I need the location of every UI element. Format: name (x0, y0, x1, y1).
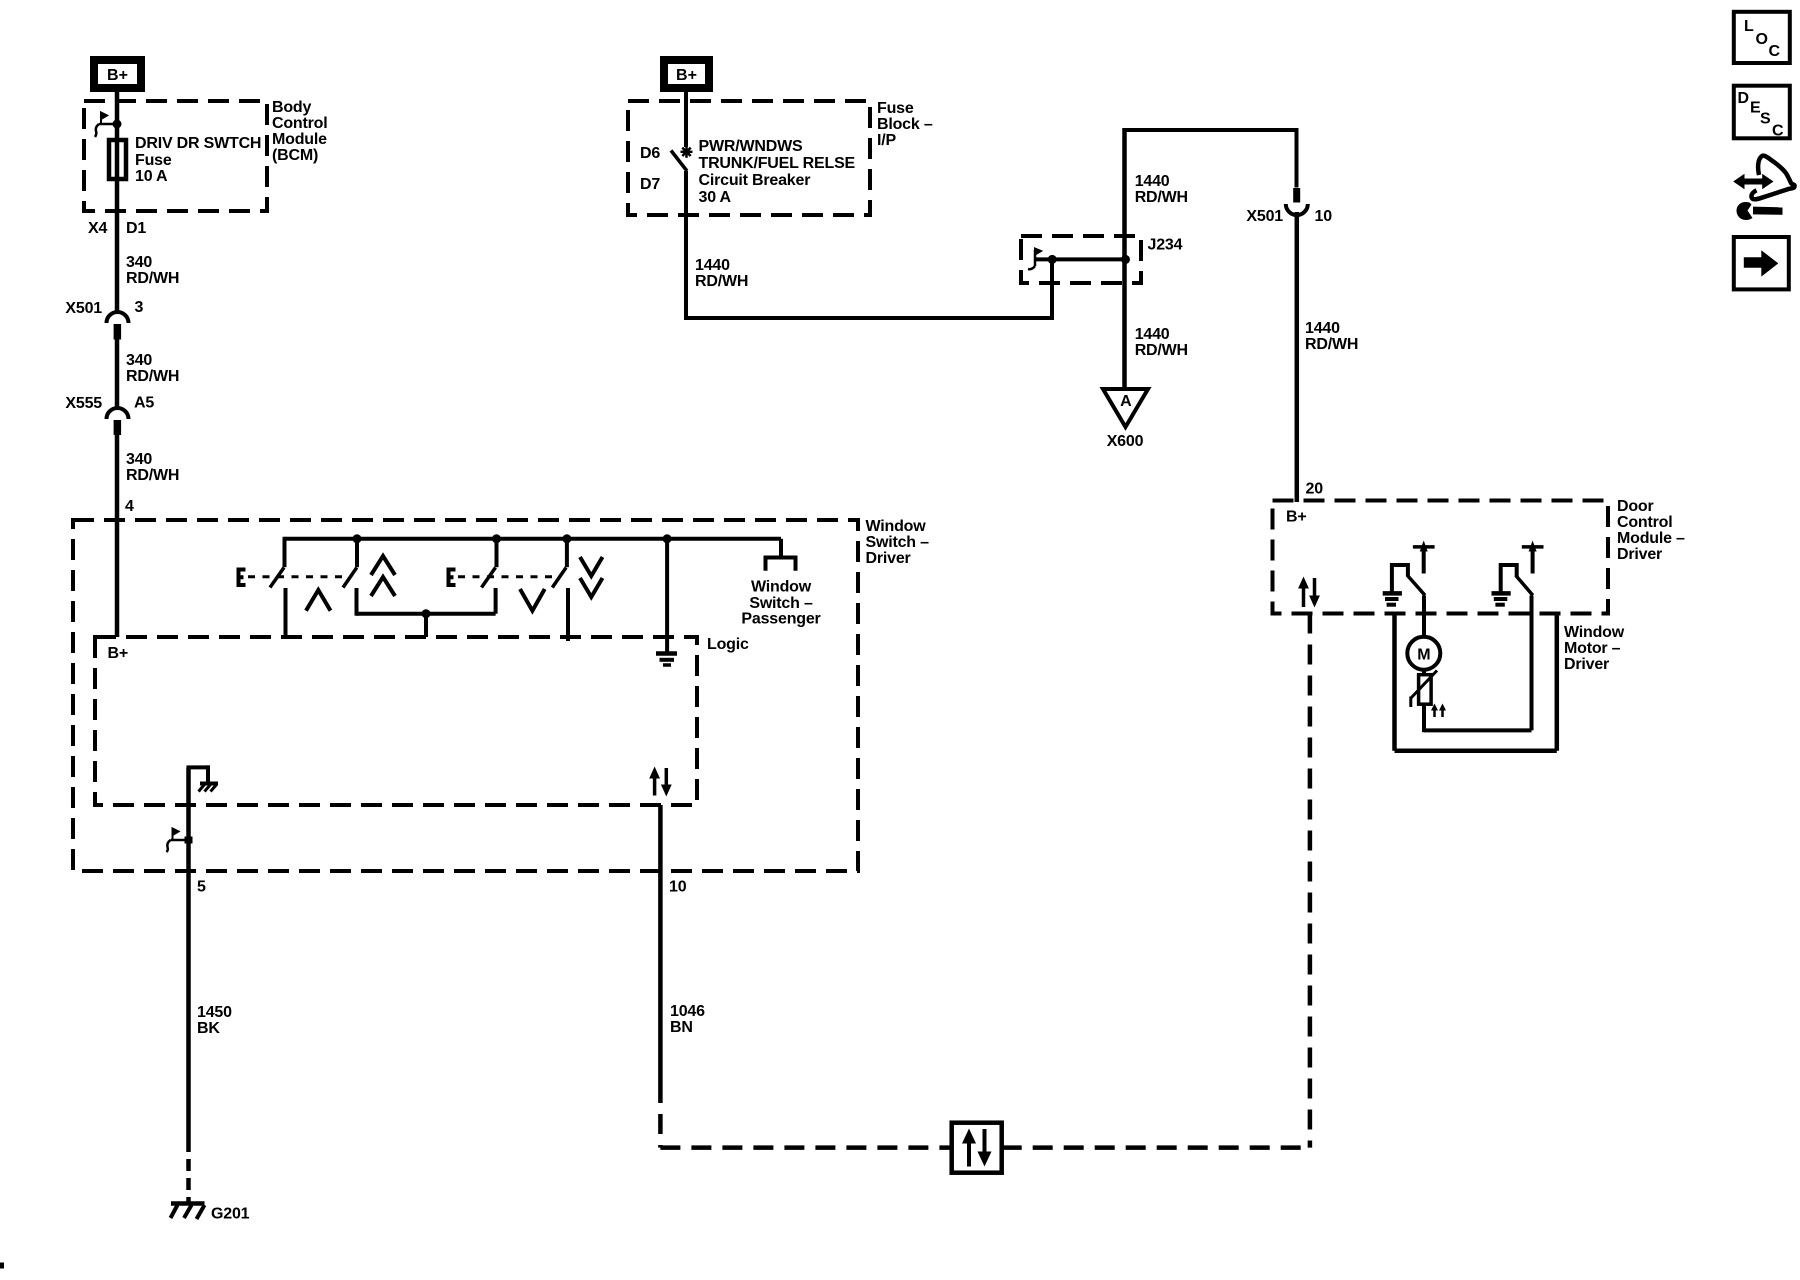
main feed vertical wire (1122, 128, 1127, 389)
single up arrow (driver down contact mark) (306, 590, 331, 611)
battery positive feed B+ box (fuse block) (664, 60, 709, 88)
svg-text:D1: D1 (126, 220, 146, 237)
dashed run to motor control box (660, 1145, 951, 1150)
wire label 340 RD/WH (3) (126, 451, 179, 484)
logic up/down arrows at pin 10 (649, 767, 672, 797)
svg-text:A5: A5 (134, 395, 154, 412)
svg-text:RD/WH: RD/WH (1305, 336, 1358, 353)
passenger window switch contact 1 (up) (482, 537, 497, 614)
svg-text:Window: Window (866, 518, 927, 535)
clip symbol on pin 5 wire (167, 829, 193, 853)
passenger window switch contact 2 (down) (552, 537, 568, 641)
Window Motor - Driver outer wires (1395, 612, 1557, 751)
svg-text:340: 340 (126, 451, 152, 468)
connector X501 pin 3 (65, 299, 143, 340)
svg-text:BK: BK (197, 1020, 220, 1037)
svg-text:S: S (1760, 111, 1771, 128)
scan mark bottom left (0, 1263, 4, 1269)
svg-text:X4: X4 (88, 220, 107, 237)
Fuse Block label (877, 100, 933, 149)
dashed lead to ground G201 (186, 1140, 191, 1203)
module relay switch 1 (1392, 565, 1425, 595)
svg-text:BN: BN (670, 1019, 693, 1036)
wire X501 to door control module (1295, 212, 1300, 502)
wire label 340 RD/WH (1) (126, 254, 179, 287)
circuit breaker PWR/WNDWS 30 A (671, 146, 693, 171)
wire X555 to window switch pin 4 (115, 435, 120, 637)
wiring diagram icon (arrow, harness, wrench) (1733, 156, 1794, 220)
wire switch 2 down (1530, 596, 1534, 731)
switch supply bus wire (285, 537, 782, 541)
wire label 1440 RD/WH (right) (1305, 320, 1358, 353)
battery positive feed B+ box (left) (94, 60, 141, 88)
svg-text:G201: G201 (211, 1206, 250, 1223)
wire label 1440 RD/WH (lower) (1135, 326, 1188, 359)
travel arrow switch 1 (1413, 541, 1435, 574)
Door Control Module - Driver dashed box (1273, 501, 1609, 614)
svg-text:20: 20 (1306, 481, 1324, 498)
ground symbol inside switch box (656, 539, 677, 665)
wire label 1450 BK (197, 1004, 232, 1037)
motor loop wire (1424, 728, 1532, 732)
svg-text:Passenger: Passenger (741, 611, 820, 628)
svg-text:RD/WH: RD/WH (126, 467, 179, 484)
svg-text:J234: J234 (1148, 237, 1183, 254)
svg-text:B+: B+ (107, 67, 128, 84)
BCM label (272, 99, 327, 164)
switch actuator E symbol 1 (239, 570, 343, 586)
Door Control Module label (1617, 498, 1685, 563)
svg-text:RD/WH: RD/WH (126, 368, 179, 385)
double down arrows (express down mark) (580, 557, 603, 597)
wire label 1440 RD/WH (breaker) (695, 257, 748, 290)
svg-text:X600: X600 (1107, 433, 1144, 450)
splice pack X600 triangle (1103, 389, 1148, 450)
wire X501 to X555 (115, 340, 120, 409)
splice J234 dashed box (1021, 236, 1141, 283)
svg-text:A: A (1120, 393, 1132, 410)
BCM internal clip symbol (95, 113, 122, 138)
svg-text:30 A: 30 A (699, 189, 732, 206)
svg-text:RD/WH: RD/WH (695, 273, 748, 290)
ground symbol switch 2 (1492, 593, 1511, 604)
svg-text:Window: Window (1564, 624, 1625, 641)
Fuse Block - I/P dashed box (628, 101, 870, 215)
svg-text:L: L (1744, 18, 1754, 35)
svg-text:C: C (1772, 123, 1784, 140)
svg-text:4: 4 (125, 498, 134, 515)
svg-text:Window: Window (751, 579, 812, 596)
svg-text:O: O (1756, 31, 1768, 48)
link wire between driver switch and logic (357, 609, 496, 637)
module up/down arrows (1298, 577, 1320, 608)
wire switch 1 to motor (1422, 596, 1426, 639)
wire fuse to BCM pin D1 (115, 179, 120, 313)
svg-text:1450: 1450 (197, 1004, 232, 1021)
svg-text:RD/WH: RD/WH (1135, 342, 1188, 359)
svg-text:1440: 1440 (1135, 173, 1170, 190)
svg-text:B+: B+ (108, 645, 129, 662)
svg-text:10: 10 (1315, 208, 1333, 225)
wire label 1440 RD/WH (upper) (1135, 173, 1188, 206)
svg-text:1440: 1440 (1305, 320, 1340, 337)
svg-text:Driver: Driver (1564, 656, 1609, 673)
svg-text:Block –: Block – (877, 116, 933, 133)
wire label 1046 BN (670, 1003, 705, 1036)
Window Switch - Driver label (866, 518, 930, 567)
Window Switch - Passenger label (741, 579, 820, 628)
svg-text:B+: B+ (676, 67, 697, 84)
wire B+ into fuse block (684, 88, 688, 147)
bus junction nodes (353, 534, 672, 543)
wire B+ down into BCM (115, 88, 120, 140)
svg-text:10 A: 10 A (135, 168, 168, 185)
fuse DRIV DR SWTCH 10 A (109, 140, 126, 179)
svg-text:340: 340 (126, 254, 152, 271)
connector X501 pin 10 (1246, 188, 1332, 225)
travel arrow switch 2 (1522, 541, 1544, 574)
thermal double up arrows (1431, 704, 1446, 718)
Window Switch - Driver dashed box (73, 520, 858, 871)
svg-text:D: D (1738, 90, 1750, 107)
svg-text:X501: X501 (65, 300, 102, 317)
Logic dashed box (95, 637, 697, 805)
logic output wire to pin 5 (186, 767, 191, 1140)
motor direction box on 1046 run (952, 1123, 1002, 1173)
svg-text:Driver: Driver (1617, 546, 1662, 563)
circuit breaker label (699, 138, 856, 206)
wire top feed down to X501 pin 10 (1295, 128, 1299, 188)
ground symbol switch 1 (1383, 593, 1402, 604)
Body Control Module (BCM) dashed box (84, 101, 267, 211)
window motor M (1407, 637, 1440, 670)
pin labels X4 D1 (88, 220, 146, 237)
motor thermal protector (1411, 670, 1438, 707)
logic output wire to pin 10 (658, 805, 663, 1083)
wire label 340 RD/WH (2) (126, 352, 179, 385)
svg-text:Body: Body (272, 99, 312, 116)
svg-text:Switch –: Switch – (866, 534, 930, 551)
wire thermal to loop (1422, 704, 1426, 732)
module relay switch 2 (1501, 565, 1533, 595)
forward arrow icon box (1734, 237, 1789, 289)
svg-text:5: 5 (197, 879, 206, 896)
wire breaker down (684, 171, 688, 320)
svg-text:Motor –: Motor – (1564, 640, 1621, 657)
svg-text:(BCM): (BCM) (272, 147, 318, 164)
svg-text:1440: 1440 (695, 257, 730, 274)
svg-text:Fuse: Fuse (877, 100, 914, 117)
LOC icon box (1734, 12, 1790, 63)
svg-text:340: 340 (126, 352, 152, 369)
fuse value label (135, 135, 261, 185)
top feed horizontal wire (1125, 128, 1297, 132)
svg-text:M: M (1417, 647, 1430, 664)
svg-text:Driver: Driver (866, 550, 911, 567)
svg-text:Switch –: Switch – (749, 595, 813, 612)
ground G201 (171, 1204, 250, 1223)
internal chassis ground of logic (187, 765, 219, 791)
svg-text:Control: Control (1617, 514, 1672, 531)
single down arrow (passenger up contact mark) (520, 589, 545, 611)
svg-text:1046: 1046 (670, 1003, 705, 1020)
switch actuator E symbol 2 (449, 570, 559, 586)
svg-text:C: C (1769, 43, 1781, 60)
svg-text:PWR/WNDWS: PWR/WNDWS (699, 138, 803, 155)
svg-text:10: 10 (669, 879, 687, 896)
svg-text:Circuit Breaker: Circuit Breaker (699, 172, 811, 189)
svg-text:X501: X501 (1246, 208, 1283, 225)
svg-text:X555: X555 (65, 395, 102, 412)
window switch passenger connector stub (766, 539, 796, 571)
driver window switch contact 2 (up) (343, 537, 357, 616)
driver window switch contact 1 (down) (270, 537, 286, 637)
clip symbol in J234 (1028, 249, 1041, 270)
svg-text:I/P: I/P (877, 132, 896, 149)
svg-text:Module –: Module – (1617, 530, 1685, 547)
svg-text:RD/WH: RD/WH (1135, 189, 1188, 206)
connector X555 pin A5 (65, 395, 154, 436)
double up arrows (express up mark) (371, 556, 395, 596)
svg-text:Module: Module (272, 131, 327, 148)
wire run breaker to J234 (686, 259, 1054, 318)
svg-text:TRUNK/FUEL RELSE: TRUNK/FUEL RELSE (699, 155, 856, 172)
svg-text:D7: D7 (640, 176, 660, 193)
svg-text:D6: D6 (640, 145, 660, 162)
svg-text:RD/WH: RD/WH (126, 270, 179, 287)
svg-text:1440: 1440 (1135, 326, 1170, 343)
svg-text:Control: Control (272, 115, 327, 132)
svg-text:Logic: Logic (707, 636, 749, 653)
dashed wire 1046 BN run (658, 1083, 663, 1148)
svg-text:3: 3 (135, 299, 144, 316)
pin labels D6 D7 (640, 145, 660, 193)
splice wire inside J234 (1035, 255, 1131, 264)
dashed control wire to motor direction box (1002, 614, 1311, 1148)
svg-text:Fuse: Fuse (135, 152, 172, 169)
svg-text:B+: B+ (1286, 509, 1307, 526)
DESC icon box (1734, 86, 1790, 140)
svg-text:Door: Door (1617, 498, 1654, 515)
svg-text:DRIV DR SWTCH: DRIV DR SWTCH (135, 135, 261, 152)
Window Motor - Driver label (1564, 624, 1625, 673)
